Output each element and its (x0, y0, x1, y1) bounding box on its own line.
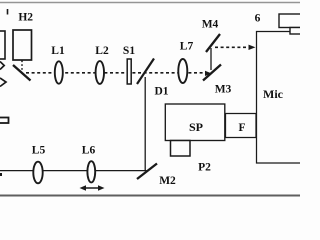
microscope box Mic (257, 32, 303, 164)
svg-text:L2: L2 (95, 45, 109, 57)
svg-text:M4: M4 (202, 19, 219, 31)
cut fragment bottom-left (0, 173, 2, 176)
svg-text:6: 6 (255, 13, 261, 25)
svg-text:L6: L6 (82, 145, 96, 157)
shutter S1 (127, 59, 131, 84)
cut label fragment top-left (7, 9, 9, 15)
svg-text:L5: L5 (32, 145, 46, 157)
lens L5 (33, 162, 42, 184)
arrowhead into microscope (249, 45, 256, 50)
mirror under H2 (13, 65, 31, 81)
lens L2 (96, 61, 104, 84)
dotted link H2 to mirror (21, 61, 23, 71)
lens L7 (178, 59, 187, 83)
svg-text:SP: SP (189, 120, 203, 134)
svg-text:Mic: Mic (263, 87, 284, 101)
bottom border rule (0, 195, 300, 197)
beam D1 down to M2 (vertical) (144, 77, 146, 170)
laser box H1 (cut at left edge) (0, 31, 5, 59)
dashed beam M4 to microscope (215, 46, 249, 48)
svg-text:F: F (238, 122, 245, 134)
arrowhead into M3 (205, 71, 212, 76)
svg-text:M3: M3 (215, 84, 232, 96)
svg-text:L7: L7 (180, 41, 194, 53)
mirror M4 (206, 34, 220, 52)
detector box 1 (top right) (279, 14, 303, 28)
detector box 2 (top right) (290, 28, 303, 35)
small box under SP (171, 141, 191, 157)
beamsplitter D1 (137, 59, 154, 85)
chevron fragment B (cut element, left edge) (0, 78, 6, 87)
mirror M2 (137, 164, 157, 180)
svg-text:L1: L1 (51, 45, 65, 57)
bottom beam (horizontal) (0, 170, 147, 172)
spectrometer box SP (165, 104, 225, 141)
box H2 (13, 30, 32, 60)
chevron fragment A (cut element, left edge) (0, 62, 4, 70)
translation double arrow under L6 (80, 185, 105, 191)
svg-text:P2: P2 (198, 162, 211, 174)
svg-text:D1: D1 (154, 86, 168, 98)
svg-text:M2: M2 (159, 175, 176, 187)
svg-text:H2: H2 (18, 12, 33, 24)
dashed beam (top, horizontal) (26, 72, 204, 74)
lens L6 (87, 161, 95, 182)
svg-text:S1: S1 (123, 45, 135, 57)
beam M3 to M4 (vertical) (210, 48, 212, 70)
lens L1 (55, 61, 63, 83)
mirror M3 (203, 65, 221, 81)
small stage box (cut, left edge) (0, 118, 9, 124)
filter box F (226, 114, 257, 138)
top border rule (0, 2, 300, 4)
